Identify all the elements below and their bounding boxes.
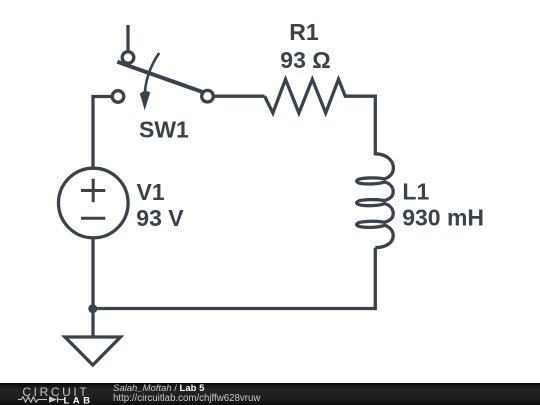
footer bar <box>0 383 540 405</box>
wire SW1 right pole to R1 <box>214 95 265 98</box>
svg-text:LAB: LAB <box>64 396 94 405</box>
switch SW1 blade <box>117 62 204 93</box>
V1 plus sign <box>81 179 105 203</box>
V1 minus sign <box>81 217 105 220</box>
svg-text:93 V: 93 V <box>136 205 184 231</box>
switch SW1 right terminal <box>202 90 214 102</box>
svg-text:930 mH: 930 mH <box>402 205 484 231</box>
wire V1 bottom to ground <box>91 238 94 336</box>
CircuitLab logo <box>0 383 100 405</box>
svg-text:SW1: SW1 <box>139 117 189 143</box>
ground <box>65 337 121 365</box>
junction node <box>88 304 97 313</box>
inductor L1 <box>357 153 394 248</box>
svg-text:R1: R1 <box>289 19 319 45</box>
footer text line 1 <box>113 383 204 394</box>
voltage source V1 <box>59 168 129 238</box>
switch SW1 arrowhead <box>140 90 151 110</box>
svg-text:V1: V1 <box>137 179 165 205</box>
switch SW1 left terminal <box>112 91 124 103</box>
resistor R1 <box>265 79 376 152</box>
switch SW1 arrow arc <box>145 53 159 91</box>
wire top stub of SW1 <box>126 25 129 52</box>
svg-text:L1: L1 <box>402 179 429 205</box>
switch SW1 top terminal <box>122 52 134 64</box>
footer text line 2 <box>113 393 260 404</box>
wire L1 bottom to ground rail <box>93 248 375 309</box>
svg-text:93 Ω: 93 Ω <box>280 47 330 73</box>
wire SW1 left pole to V1 top <box>93 97 112 169</box>
